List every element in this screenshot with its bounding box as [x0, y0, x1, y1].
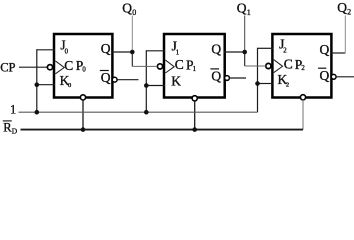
U2 reset bubble: [300, 95, 305, 100]
junction Q1: [242, 50, 247, 55]
flip-flop U1 box P1: [164, 34, 225, 98]
svg-text:1: 1: [193, 66, 196, 73]
wire RD rail: [21, 129, 304, 131]
U1 clock edge wedge: [165, 60, 174, 73]
U2 Qbar stub wire: [336, 76, 354, 78]
svg-text:Q: Q: [122, 0, 132, 15]
svg-text:CP: CP: [0, 60, 15, 74]
svg-text:Q: Q: [211, 41, 221, 56]
svg-text:D: D: [12, 127, 18, 136]
U1 Qbar stub wire: [229, 77, 246, 79]
U0 Q output wire: [111, 51, 132, 53]
svg-text:Q: Q: [101, 41, 111, 56]
U2 reset wire to RD rail: [302, 100, 304, 130]
svg-text:Q: Q: [337, 0, 347, 15]
svg-text:1: 1: [10, 102, 16, 116]
U0 reset bubble: [80, 95, 85, 100]
svg-text:Q: Q: [320, 42, 330, 57]
svg-text:K: K: [171, 73, 181, 88]
U2 Q output wire: [330, 52, 345, 54]
junction RD U0: [81, 127, 86, 132]
svg-text:0: 0: [65, 49, 69, 56]
svg-text:Q: Q: [101, 70, 111, 85]
U2 J input wire: [258, 47, 274, 49]
wire logic-1 rail: [19, 111, 258, 113]
U2 K junction: [255, 81, 260, 86]
U0 Qbar stub wire: [117, 79, 138, 81]
U0 J/K tie vertical wire: [36, 49, 38, 112]
svg-text:Q: Q: [237, 0, 247, 15]
junction Q0: [130, 50, 135, 55]
svg-text:C: C: [64, 58, 73, 73]
svg-text:1: 1: [247, 8, 251, 17]
junction 1-rail U1: [144, 110, 149, 115]
U1 reset bubble: [192, 96, 197, 101]
U0 Qbar bubble: [112, 77, 117, 82]
flip-flop U0 box P0: [54, 34, 112, 98]
svg-text:C: C: [284, 57, 293, 72]
wire Q1 label drop: [244, 16, 246, 53]
U1 J/K tie vertical wire: [145, 50, 147, 112]
U0 J input wire: [37, 49, 55, 51]
junction 1-rail U0: [35, 110, 40, 115]
svg-text:2: 2: [347, 8, 351, 17]
svg-text:2: 2: [301, 65, 305, 72]
svg-text:0: 0: [82, 66, 86, 73]
U1 clock inversion bubble: [157, 64, 162, 69]
svg-text:0: 0: [68, 82, 71, 89]
svg-text:2: 2: [283, 48, 287, 55]
U1 reset wire to RD rail: [194, 101, 196, 130]
U2 clock edge wedge: [274, 60, 283, 73]
U2 K input wire: [258, 83, 274, 85]
wire Q1 to U2 clock: [244, 52, 246, 66]
U0 clock edge wedge: [55, 61, 64, 74]
U0 K input wire: [37, 84, 55, 86]
svg-text:Q: Q: [320, 68, 330, 83]
wire Q2 label drop: [344, 16, 346, 54]
U2 clock inversion bubble: [266, 63, 271, 68]
U1 Q output wire: [224, 51, 245, 53]
U0 K junction: [35, 82, 40, 87]
U0 reset wire to RD rail: [82, 100, 84, 130]
U1 Qbar bubble: [225, 76, 230, 81]
svg-text:Q: Q: [211, 69, 221, 84]
U1 K input wire: [146, 85, 165, 87]
flip-flop U2 box P2: [272, 34, 331, 98]
svg-text:C: C: [175, 57, 184, 72]
wire Q0 label drop: [131, 16, 133, 53]
U1 K junction: [144, 83, 149, 88]
U1 J input wire: [146, 50, 165, 52]
U0 clock inversion bubble: [47, 65, 52, 70]
svg-text:1: 1: [176, 49, 179, 56]
wire Q0 to U1 clock: [131, 52, 133, 66]
svg-text:2: 2: [286, 81, 289, 88]
CP wire: [19, 66, 47, 68]
U2 J/K tie vertical wire: [257, 48, 259, 112]
U2 Qbar bubble: [331, 74, 336, 79]
junction RD U1: [192, 127, 197, 132]
